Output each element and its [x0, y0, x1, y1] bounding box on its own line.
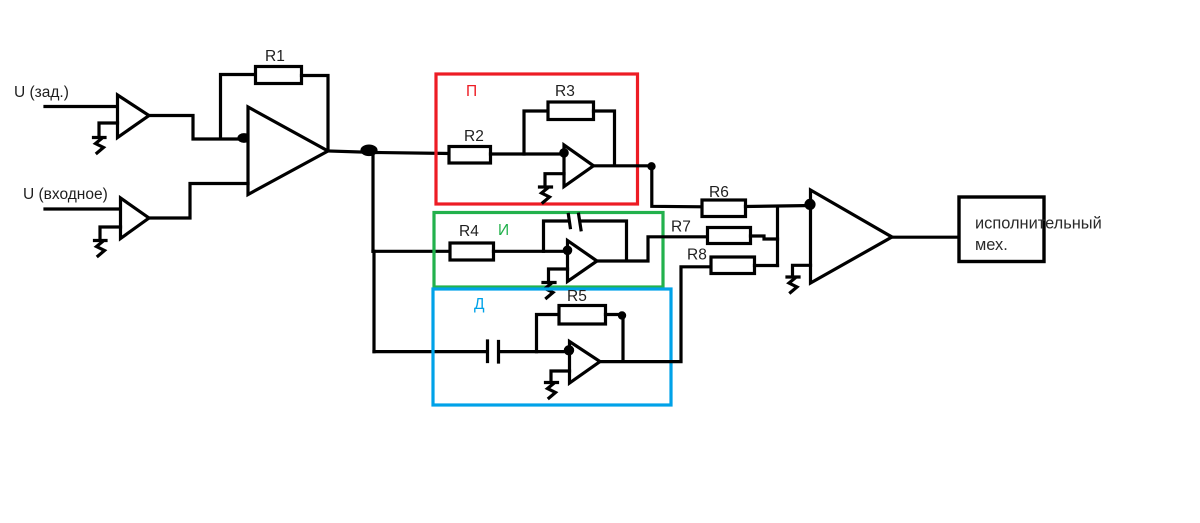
ground G4	[543, 283, 555, 299]
box actuator	[959, 197, 1044, 262]
ground G2	[95, 241, 107, 257]
wire input1	[45, 105, 119, 108]
svg-text:исполнительный: исполнительный	[975, 215, 1102, 233]
resistor R8	[711, 257, 755, 274]
svg-text:R3: R3	[555, 83, 575, 100]
wire U3 output	[597, 237, 708, 261]
svg-text:R8: R8	[687, 247, 707, 264]
wire summing bus vertical	[776, 207, 779, 266]
box П (red)	[436, 74, 638, 204]
node junction D1	[239, 135, 249, 142]
ground G5	[546, 383, 558, 399]
op-amp U4	[570, 342, 601, 384]
wire distribution vertical	[373, 153, 374, 352]
wire U4 ground stub	[551, 371, 570, 381]
svg-text:U (входное): U (входное)	[23, 186, 108, 203]
op-amp U3	[568, 241, 598, 282]
wire A1 ground stub	[99, 123, 118, 136]
node junction D7	[806, 200, 814, 208]
svg-text:Д: Д	[474, 296, 485, 313]
ground G6	[787, 277, 799, 293]
svg-text:мех.: мех.	[975, 236, 1008, 254]
svg-text:R7: R7	[671, 219, 691, 236]
wire U2 output	[594, 166, 703, 207]
resistor R1	[256, 67, 302, 84]
op-amp U1	[248, 107, 328, 195]
wire R8 right	[755, 264, 778, 267]
wire R5 right down	[606, 315, 624, 361]
wire R5 feedback left	[537, 315, 560, 352]
resistor R3	[548, 102, 594, 120]
svg-text:П: П	[466, 83, 477, 100]
wire R6 to opamp	[746, 206, 811, 207]
box И (green)	[434, 213, 663, 288]
node corner dot	[649, 164, 654, 169]
svg-text:R4: R4	[459, 223, 479, 240]
wire A2 output	[148, 184, 248, 219]
svg-text:R6: R6	[709, 184, 729, 201]
node junction D6	[565, 347, 572, 354]
wire branch to R4	[373, 250, 450, 253]
wire A1 output	[148, 116, 246, 140]
wire R1 right down	[302, 76, 329, 150]
buffer op-amp A1	[118, 95, 150, 138]
wire R7 right	[751, 236, 778, 239]
capacitor C1	[568, 214, 581, 230]
box Д (blue)	[433, 289, 671, 405]
node junction D2	[362, 146, 376, 154]
wire U2 ground stub	[545, 174, 564, 186]
wire R3 right down	[594, 111, 615, 164]
node junction D4	[564, 247, 570, 253]
svg-text:И: И	[498, 222, 509, 239]
wire U3 ground stub	[549, 269, 568, 281]
wire U5 ground stub	[793, 265, 811, 275]
node junction D5	[619, 313, 624, 318]
wire C1 right down	[582, 221, 627, 260]
wire U5 output	[892, 236, 959, 239]
wire R4 to opamp	[494, 250, 568, 253]
svg-text:U (зад.): U (зад.)	[14, 84, 69, 101]
svg-text:R5: R5	[567, 288, 587, 305]
resistor R6	[702, 200, 746, 217]
wire A2 ground stub	[100, 227, 121, 239]
wire R3 feedback left	[524, 111, 548, 154]
resistor R7	[708, 228, 751, 244]
buffer op-amp A2	[121, 198, 150, 239]
wire U4 output	[600, 267, 711, 362]
wire U1 output	[328, 151, 449, 154]
wire R2 to opamp	[491, 152, 564, 155]
resistor R5	[559, 306, 606, 325]
wire branch to C2	[374, 350, 486, 353]
ground G1	[94, 138, 106, 154]
wire C2 to opamp	[500, 350, 570, 353]
svg-text:R2: R2	[464, 128, 484, 145]
op-amp U2	[564, 145, 594, 187]
wire input2	[45, 207, 121, 210]
wire feedback up	[221, 75, 256, 138]
resistor R2	[449, 147, 491, 164]
node junction D3	[561, 150, 567, 156]
svg-text:R1: R1	[265, 48, 285, 65]
resistor R4	[450, 243, 494, 260]
capacitor C2	[488, 341, 499, 362]
op-amp U5	[811, 190, 893, 283]
wire C1 feedback left	[544, 221, 568, 251]
ground G3	[540, 187, 552, 203]
